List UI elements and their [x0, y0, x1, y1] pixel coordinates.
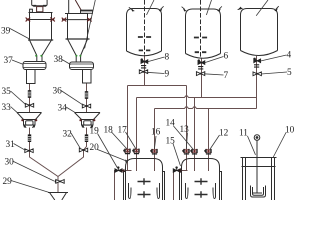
leader 37	[12, 60, 24, 65]
hopper 38 bottom flange	[66, 38, 90, 40]
tank T2 left nozzle arrow	[182, 7, 185, 10]
reactor R2 coil right	[213, 183, 216, 199]
svg-text:9: 9	[165, 70, 170, 80]
hopper 39 bottom flange	[28, 39, 53, 41]
valve at junction 30	[56, 180, 64, 184]
svg-text:31: 31	[6, 140, 16, 150]
bellows under valve 38	[85, 91, 88, 99]
reactor R2 coil left	[186, 183, 189, 199]
leader 18	[112, 132, 128, 149]
wire feeder33 down through valve 31 to junction	[30, 128, 59, 193]
svg-text:15: 15	[166, 137, 176, 147]
tank T1 agitator shaft	[144, 0, 146, 55]
reactor R1 jacket right	[163, 172, 165, 201]
wire manifold line 1 (y85.5)	[128, 85, 187, 87]
wire drop to reactor R2 nozzle c	[208, 109, 210, 172]
tank T2 agitator shaft	[200, 0, 202, 57]
tank 10 frame	[241, 157, 277, 159]
leader 4	[261, 55, 287, 61]
tank T2 shell	[186, 9, 221, 54]
leader 9	[147, 72, 165, 73]
reactor R1 nozzle flange x	[122, 169, 125, 172]
screw feeder 33	[17, 113, 42, 128]
reactor R1 top fitting b	[132, 149, 140, 154]
leader 5	[261, 72, 287, 74]
leader 16	[154, 136, 156, 149]
svg-text:13: 13	[180, 125, 190, 135]
hopper 38 flange line	[62, 19, 91, 21]
hopper 38 body	[68, 14, 88, 40]
valve 9	[139, 70, 147, 74]
valve 31	[25, 149, 33, 153]
impeller bar	[253, 192, 263, 194]
wire drop to reactor R2 nozzle a	[186, 86, 188, 172]
wire hopper2 valve stem down to feeder 34	[86, 83, 88, 113]
svg-text:39: 39	[1, 27, 11, 37]
valve 4	[253, 58, 260, 63]
flange pair under valve 6	[198, 67, 203, 69]
wire drop to reactor R1 nozzle b	[136, 98, 138, 172]
svg-text:35: 35	[2, 87, 12, 97]
wire drop to reactor R2 nozzle b	[194, 98, 196, 172]
feed chute support hopper 38	[68, 0, 70, 13]
leader 31	[14, 144, 26, 151]
leader 19	[98, 134, 118, 169]
tank T3 left nozzle flag	[238, 8, 243, 9]
wire drop to reactor R1 nozzle a	[127, 86, 129, 172]
wire feeder34 down through valve 32 to junction	[58, 128, 87, 177]
vibrator motor on hopper 39	[32, 0, 47, 6]
hopper 38 cone	[68, 39, 88, 62]
reactor R1 top fitting a	[123, 149, 131, 154]
reactor R1 shoulder flange 20	[125, 160, 127, 162]
svg-text:11: 11	[239, 129, 248, 139]
junction node 30	[55, 180, 58, 183]
svg-text:8: 8	[165, 53, 170, 63]
valve 6	[198, 59, 205, 64]
leader 12	[210, 135, 220, 150]
reactor R2 nozzle flange x	[179, 169, 182, 172]
flange mark right hopper39	[50, 18, 55, 22]
tank 10 inner vessel	[251, 186, 266, 198]
level sensor dot right	[40, 55, 42, 57]
valve 5	[253, 72, 261, 76]
level sensor dot right h38	[79, 55, 81, 57]
reactor R1 agitator	[138, 178, 151, 184]
leader 14	[174, 126, 194, 150]
leader 20	[98, 150, 126, 161]
reactor R2 jacket left	[180, 172, 182, 201]
svg-text:4: 4	[287, 51, 292, 61]
leader 38	[62, 60, 71, 65]
svg-text:29: 29	[3, 177, 13, 187]
leader 34	[66, 107, 76, 113]
reactor R2 side valve	[173, 166, 180, 172]
svg-text:38: 38	[54, 55, 64, 65]
wire reactor R1 side feed pipe	[115, 171, 132, 201]
flange pair under valve 8	[141, 66, 146, 68]
tank T2 right nozzle arrow	[219, 6, 222, 9]
svg-text:19: 19	[90, 127, 100, 137]
wire tank3 outlet down to manifold 3	[256, 56, 258, 109]
funnel 29	[48, 193, 68, 201]
hopper 39 flange line	[26, 19, 54, 21]
reactor R1 coil right	[157, 183, 160, 199]
tank T3 right nozzle arrow	[276, 6, 279, 9]
wire tank1 outlet down to manifold 1	[144, 55, 146, 86]
feeder 33 flange dots	[21, 119, 23, 121]
leader 29	[11, 181, 49, 193]
wire hopper1 valve stem down to feeder 33	[29, 84, 31, 113]
svg-text:30: 30	[5, 158, 15, 168]
svg-text:17: 17	[118, 126, 128, 136]
tank T3 label leader	[256, 0, 268, 16]
wire manifold line 2 (y95.5) with hop over crossing	[137, 95, 257, 97]
flange mark left hopper38	[62, 18, 67, 22]
reactor R1 top fitting c	[150, 149, 158, 154]
leader 33	[11, 107, 18, 113]
svg-text:32: 32	[63, 130, 73, 140]
svg-text:34: 34	[58, 104, 68, 114]
hopper 39 cone	[30, 40, 52, 61]
rotary valve 37	[23, 62, 46, 84]
svg-text:18: 18	[104, 126, 114, 136]
level sensor dot left	[35, 55, 37, 57]
tank T1 shell	[127, 9, 162, 52]
reactor R1 side valve 19	[115, 166, 122, 172]
valve 32	[79, 148, 87, 152]
flange mark left hopper39	[26, 18, 31, 22]
leader 8	[148, 57, 165, 62]
svg-text:6: 6	[224, 52, 229, 62]
svg-text:20: 20	[90, 143, 100, 153]
tank T1 label leader	[147, 0, 155, 15]
feeder 34 flange dots	[79, 119, 81, 121]
reactor R2 vessel dome and walls	[182, 159, 220, 201]
tank T1 right nozzle arrow	[160, 6, 163, 9]
leader 17	[126, 132, 137, 149]
tank T1 left nozzle arrow	[129, 7, 133, 10]
leader 6	[205, 57, 224, 63]
reactor R2 top fitting c	[204, 149, 212, 154]
bellows under valve 37	[28, 90, 31, 98]
reactor R2 agitator	[195, 178, 208, 184]
valve 35	[25, 103, 33, 107]
reactor R2 top fitting a	[182, 149, 190, 154]
leader 10	[273, 133, 286, 159]
tank T3 shell	[241, 9, 278, 51]
svg-text:33: 33	[2, 103, 12, 113]
leader 13	[186, 133, 187, 149]
screw feeder 34	[75, 113, 101, 128]
wire reactor R2 side feed pipe	[174, 171, 188, 201]
reactor R1 vessel dome and walls	[126, 159, 163, 201]
valve 7	[196, 72, 204, 76]
svg-text:37: 37	[4, 56, 14, 66]
svg-text:16: 16	[151, 128, 161, 138]
hopper 38 lid	[65, 13, 88, 15]
stirrer motor 11	[254, 135, 260, 141]
leader 36	[61, 91, 84, 106]
reactor R2 top fitting b	[190, 149, 198, 154]
reactor R2 jacket right	[220, 172, 222, 201]
flange mark right hopper38	[87, 18, 92, 22]
svg-text:7: 7	[224, 71, 229, 81]
leader 35	[11, 91, 27, 105]
reactor R1 coil left	[129, 183, 132, 199]
svg-text:14: 14	[166, 119, 176, 129]
bellows under feeder 34	[85, 134, 88, 142]
leader 32	[71, 133, 81, 149]
hopper 39 body	[30, 13, 52, 41]
leader 39	[10, 29, 30, 40]
valve 8	[141, 58, 148, 63]
leader hopper 38 top	[85, 0, 96, 49]
hopper 39 lid	[29, 12, 53, 14]
wire manifold line 3 (y107.5) with hops over crossings	[155, 106, 257, 108]
svg-text:5: 5	[287, 68, 292, 78]
wire tank2 outlet down to manifold 2	[201, 59, 203, 98]
leader 15	[173, 144, 181, 167]
svg-text:36: 36	[53, 87, 63, 97]
tank T2 label leader	[206, 0, 211, 15]
leader 7	[204, 74, 224, 75]
reactor R1 jacket left	[124, 172, 126, 201]
svg-text:12: 12	[219, 129, 229, 139]
svg-text:10: 10	[285, 126, 295, 136]
valve 36	[82, 104, 90, 108]
wire drop to reactor R1 nozzle c	[154, 109, 156, 172]
leader 11	[248, 136, 256, 155]
bellows under feeder 33	[28, 134, 31, 142]
flange pair under valve 4	[254, 65, 259, 67]
rotary valve 38	[70, 62, 94, 83]
inclined feed chute hopper 38	[75, 0, 81, 10]
level sensor dot left h38	[75, 55, 77, 57]
leader 30	[13, 161, 55, 181]
